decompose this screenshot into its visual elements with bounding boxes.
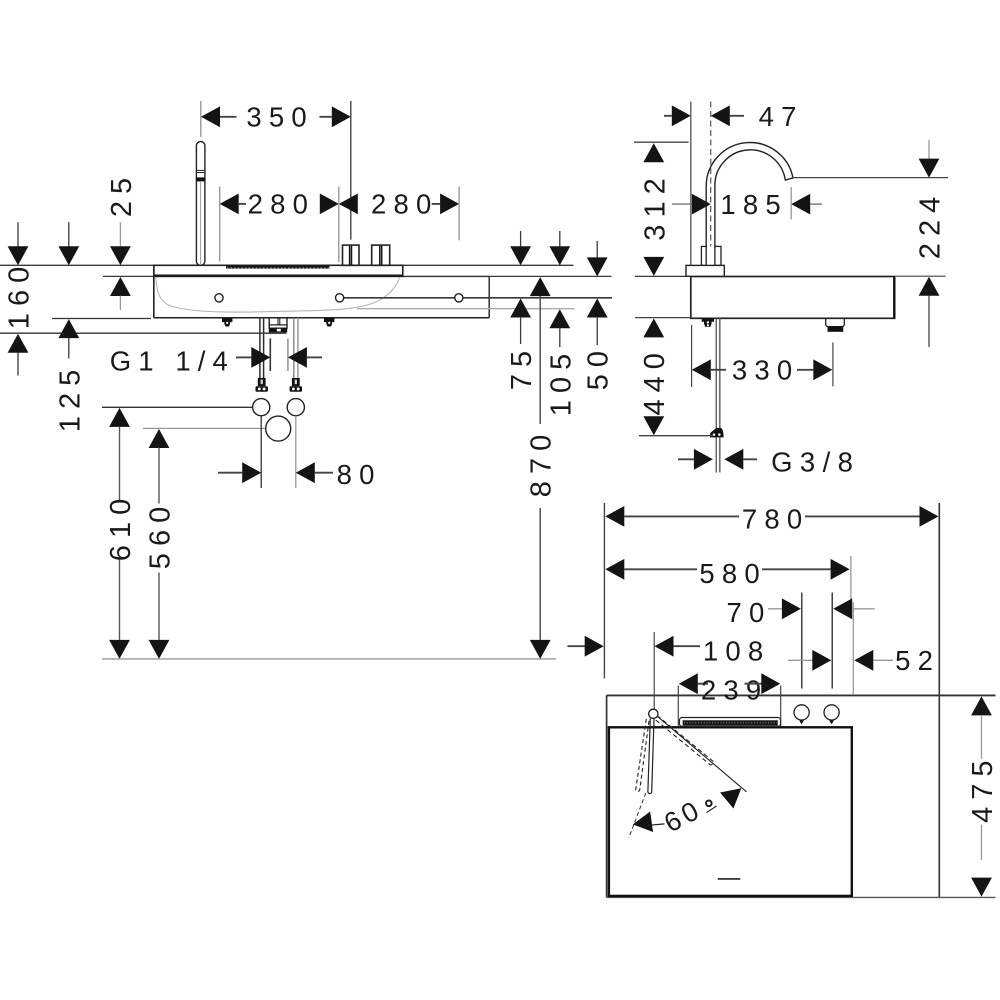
- svg-text:239: 239: [701, 674, 768, 705]
- svg-text:280: 280: [371, 189, 438, 220]
- svg-text:610: 610: [105, 492, 137, 561]
- svg-text:108: 108: [703, 635, 770, 666]
- svg-text:330: 330: [732, 355, 799, 386]
- svg-text:G1 1/4: G1 1/4: [110, 345, 231, 376]
- svg-text:440: 440: [639, 346, 671, 415]
- svg-text:224: 224: [915, 190, 947, 259]
- svg-text:870: 870: [526, 428, 558, 497]
- svg-text:75: 75: [506, 344, 538, 390]
- svg-text:G3/8: G3/8: [771, 447, 856, 478]
- svg-text:125: 125: [54, 363, 86, 432]
- svg-text:160: 160: [4, 260, 36, 329]
- svg-text:47: 47: [759, 101, 804, 132]
- svg-text:280: 280: [248, 189, 315, 220]
- svg-text:105: 105: [545, 347, 577, 416]
- svg-text:80: 80: [337, 459, 382, 490]
- svg-text:780: 780: [742, 504, 809, 535]
- svg-text:25: 25: [106, 171, 138, 217]
- svg-text:312: 312: [639, 171, 671, 240]
- svg-text:475: 475: [967, 754, 999, 823]
- svg-text:52: 52: [895, 645, 940, 676]
- svg-text:580: 580: [699, 558, 766, 589]
- svg-text:560: 560: [145, 500, 177, 569]
- svg-text:185: 185: [720, 189, 787, 220]
- svg-text:70: 70: [727, 597, 772, 628]
- svg-text:50: 50: [583, 344, 615, 390]
- svg-text:350: 350: [246, 101, 313, 132]
